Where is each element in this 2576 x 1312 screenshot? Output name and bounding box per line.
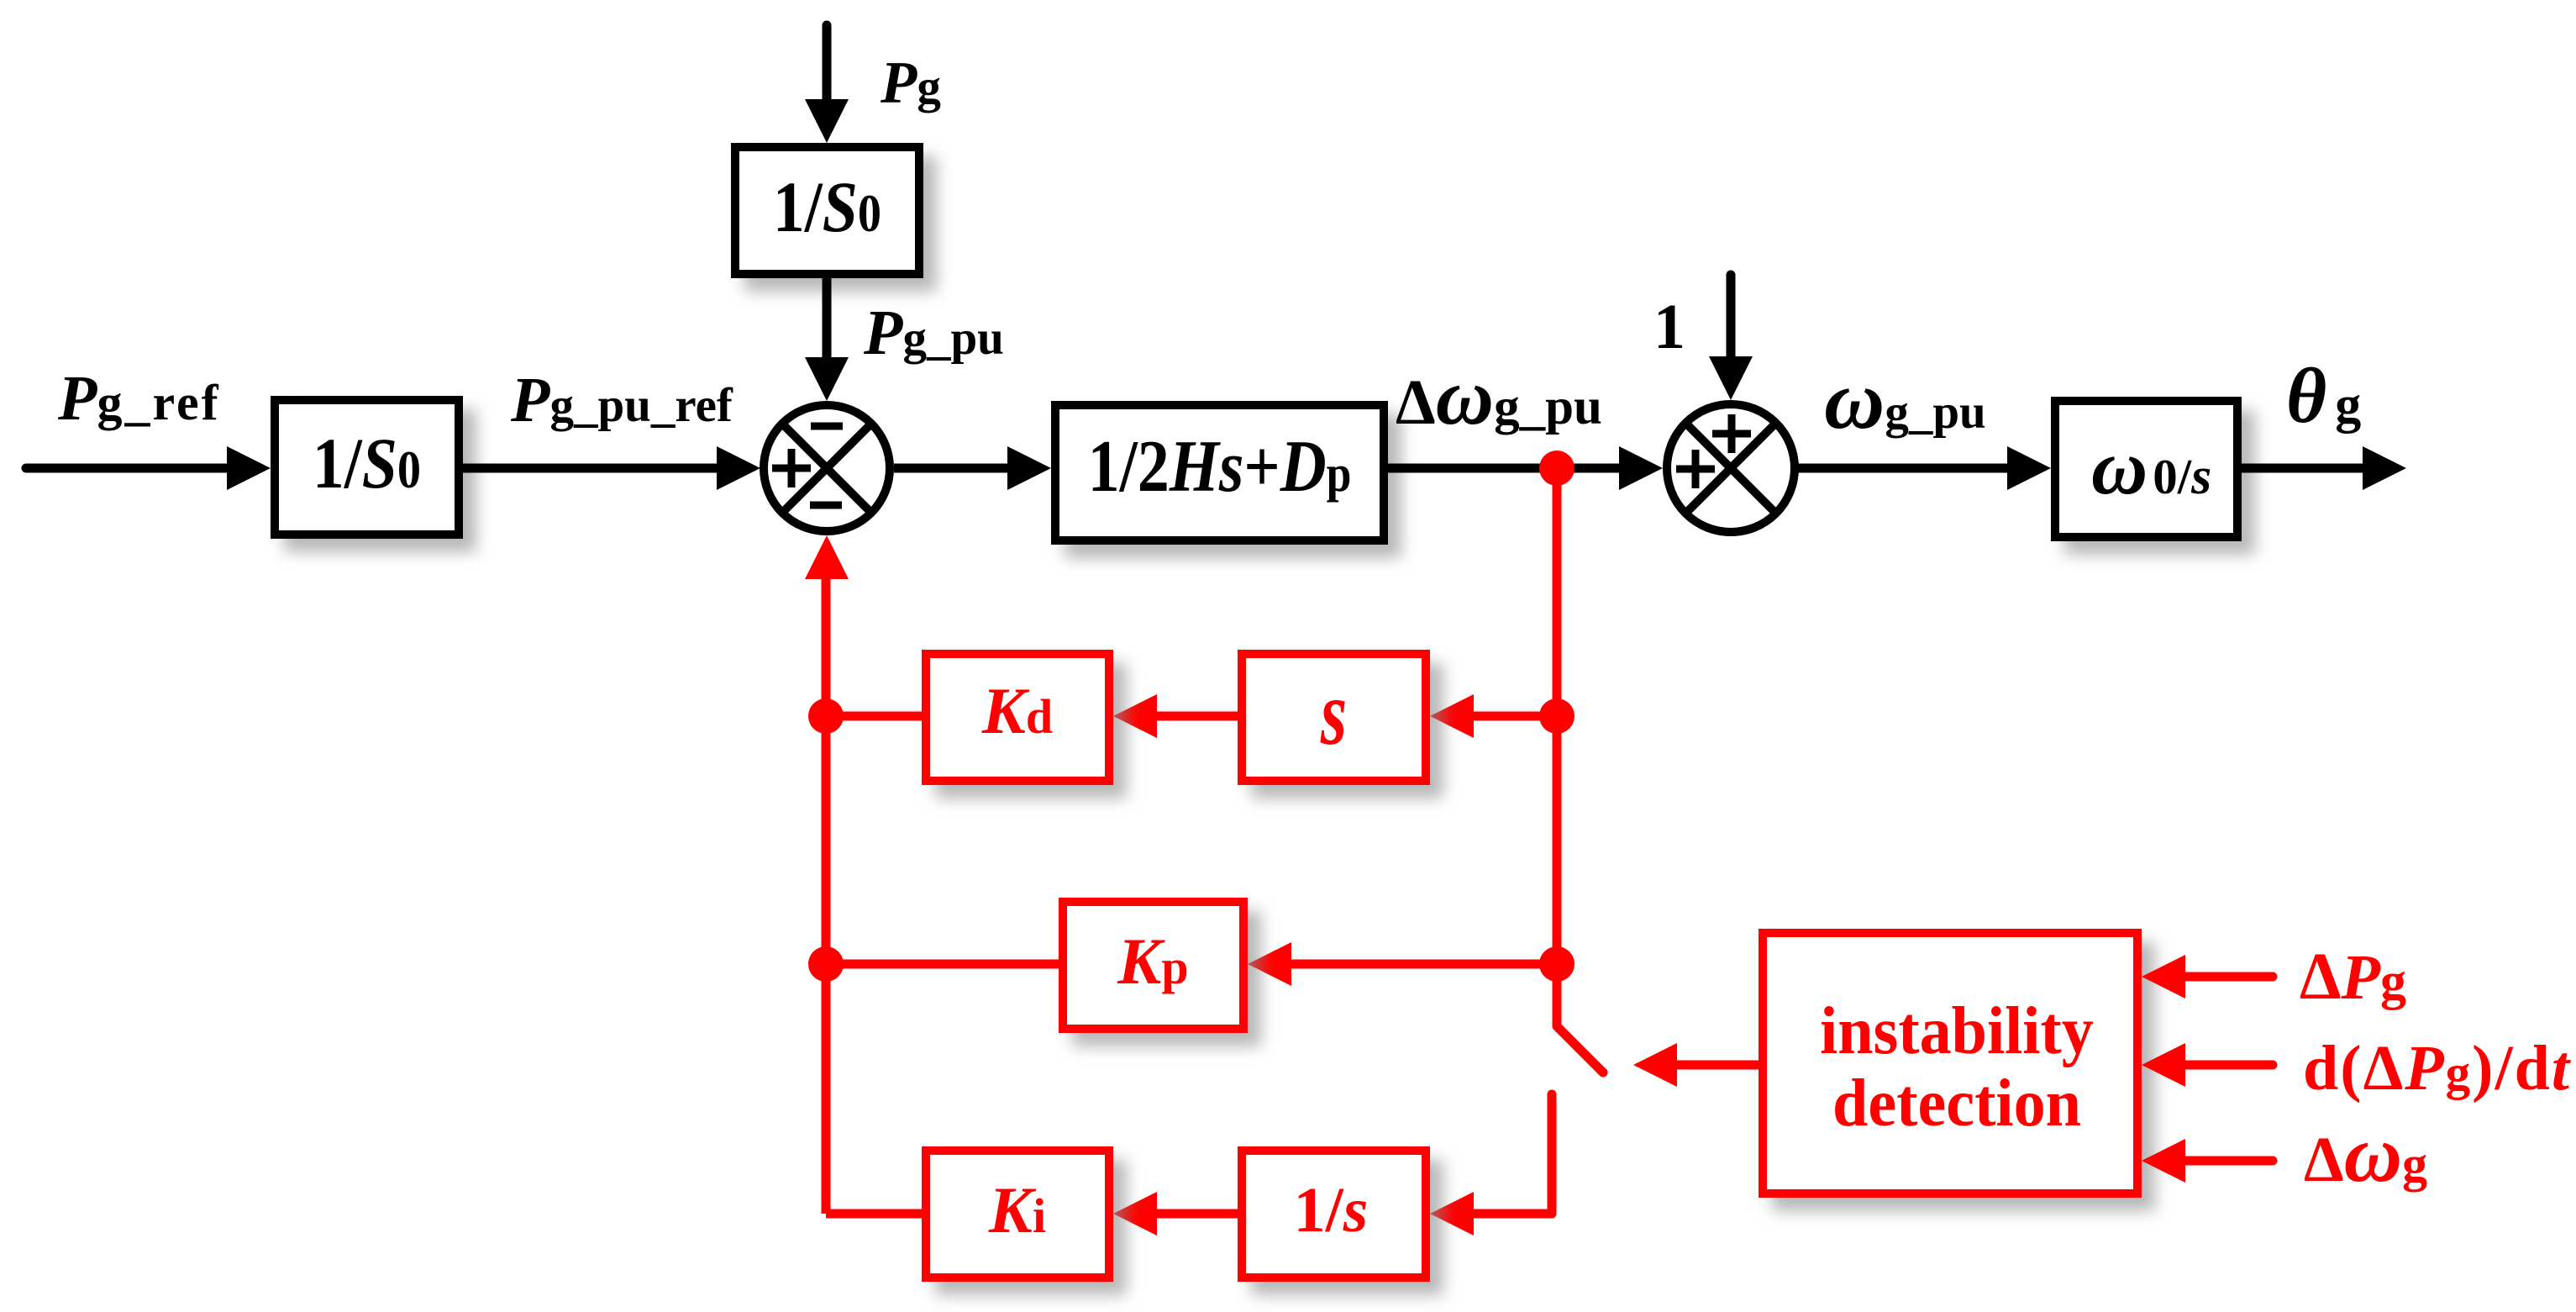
block Ki: [926, 1151, 1109, 1278]
wire: s to Kd: [1157, 712, 1238, 721]
svg-text:Pg: Pg: [880, 50, 941, 116]
wire: Kp to left trunk: [826, 960, 1059, 969]
wire: left trunk up into sum1: [822, 579, 831, 1214]
arrow into sum1 from below: [805, 535, 849, 579]
svg-text:instability: instability: [1820, 993, 2094, 1069]
arrow into 1/s block: [1430, 1192, 1474, 1236]
wire: input delta Pg to instability detection: [2185, 972, 2273, 982]
block instability detection: [1763, 933, 2137, 1193]
wire: 1/s to Ki: [1157, 1209, 1238, 1219]
wire: vertical into top 1/S0, label Pg: [823, 25, 832, 105]
wire: input Pg_ref line: [26, 464, 234, 473]
red junction dots: [1539, 451, 1575, 486]
block 1/s: [1242, 1151, 1426, 1278]
wire: sum1 to 1/2Hs+Dp: [894, 464, 1013, 473]
block Kd: [926, 654, 1109, 781]
arrow into s block: [1430, 694, 1474, 738]
block 1/S0 (top): [735, 147, 919, 274]
arrow into Ki block: [1113, 1192, 1157, 1236]
wire: bottom row horizontal to 1/s: [1474, 1209, 1552, 1219]
svg-text:1/s: 1/s: [1294, 1175, 1369, 1246]
wire: sum2 to omega0/s block: [1795, 464, 2013, 473]
svg-text:detection: detection: [1832, 1066, 2081, 1141]
summing junction sum2: [1667, 404, 1795, 532]
wire: lower switch segment: [1548, 1094, 1557, 1214]
svg-text:s: s: [1320, 661, 1347, 764]
block omega0/s: [2055, 401, 2237, 537]
wire: output theta g: [2242, 464, 2363, 473]
summing junction sum1: [764, 405, 890, 531]
wire: Kd to left trunk: [826, 712, 922, 721]
wire: Ki to left trunk: [826, 1209, 922, 1219]
RED FEEDBACK: [826, 468, 1603, 1214]
wire: red trunk right from main line down to switch: [1553, 468, 1562, 1026]
wire: arrow from instability detection to switch: [1677, 1061, 1759, 1070]
wire: switch blade: [1557, 1026, 1603, 1072]
wire: row2 from trunk to Kp: [1291, 960, 1557, 969]
block 1/2Hs+Dp: [1055, 405, 1384, 540]
arrow into Kp block: [1248, 942, 1291, 986]
block Kp: [1063, 902, 1243, 1029]
svg-text:1: 1: [1653, 292, 1685, 362]
wire: constant 1 into sum2: [1727, 275, 1736, 359]
block s: [1242, 654, 1426, 781]
wire: input delta omega g: [2185, 1157, 2273, 1166]
arrow into Kd block: [1113, 694, 1157, 738]
wire: input d(delta Pg)/dt: [2185, 1061, 2273, 1070]
wire: 1/S0 top down to sum1, label Pg_pu: [823, 278, 832, 361]
block 1/S0 (left): [275, 400, 459, 535]
svg-text:1/2Hs+Dp: 1/2Hs+Dp: [1088, 425, 1352, 507]
wire: Pg_pu_ref line to sum1: [463, 464, 723, 473]
wire: row1 horizontal from trunk to s: [1474, 712, 1557, 721]
svg-text:d(ΔPg)/dt: d(ΔPg)/dt: [2303, 1033, 2572, 1104]
wire: 1/2Hs+Dp to sum2: [1388, 464, 1625, 473]
